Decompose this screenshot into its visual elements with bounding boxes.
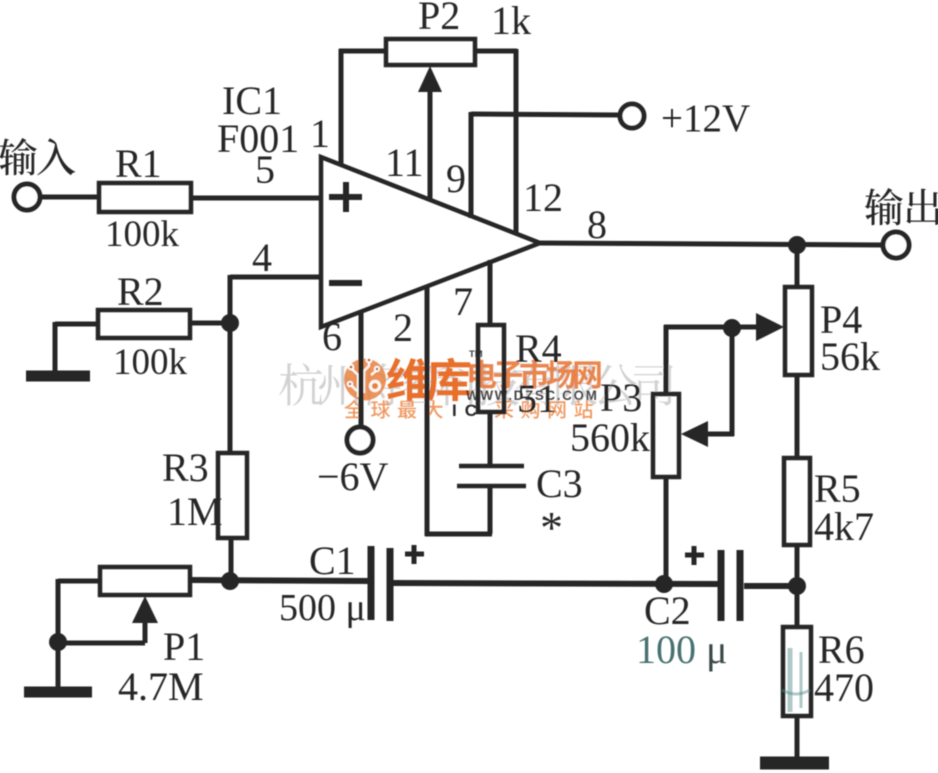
resistor R6 [783,627,811,716]
svg-text:−6V: −6V [317,454,389,499]
value 4k7 [814,504,874,549]
value 56k [820,334,880,379]
label IC1 [222,78,282,123]
label R1 [115,141,162,186]
svg-text:4k7: 4k7 [814,504,874,549]
wire P3 top to wiper node [664,325,734,396]
output terminal [883,232,909,258]
junction P3/C2 node [655,575,673,593]
pin label 1 [310,111,330,156]
wire pin1 to P2 left [339,49,388,166]
output label 输出 [865,188,938,225]
resistor R3 [218,453,247,538]
svg-text:56k: 56k [820,334,880,379]
C3 adjustable mark * [540,502,563,553]
svg-text:6: 6 [322,314,342,359]
svg-text:R1: R1 [115,141,162,186]
svg-text:R4: R4 [515,326,562,371]
junction R2/R3 node [221,314,239,332]
P4 wiper arrow [732,313,784,341]
ground (R2) [26,371,90,382]
svg-text:P1: P1 [163,624,205,669]
wire inverting input (pin 4) [230,275,321,455]
svg-text:9: 9 [446,156,466,201]
pin label 11 [385,140,424,185]
label +12V [661,97,750,140]
wire node to R6 [795,586,800,629]
capacitor C3 [457,466,526,486]
potentiometer P3 [653,394,679,477]
capacitor C1 [371,546,390,621]
value 4.7M [118,664,204,709]
wire pin 7 to R4 [488,260,493,327]
svg-text:500 μ: 500 μ [279,587,366,629]
output wire [538,243,884,245]
svg-text:100 μ: 100 μ [636,627,727,672]
value 500μ [279,587,366,629]
pin label 8 [587,202,607,247]
label R4 [515,326,562,371]
wire pin 6 to -6V [359,311,364,427]
P2 wiper arrow to pin 11 [418,66,442,201]
wire R2 left to ground [55,322,98,372]
svg-text:*: * [540,502,563,553]
svg-text:8: 8 [587,202,607,247]
svg-text:P3: P3 [600,375,642,420]
label P3 [600,375,642,420]
wire R3 to bus [229,538,234,582]
wire P2 right to pin 12 [473,49,517,235]
label C2 [644,588,691,633]
label P2 [418,0,460,38]
value 1k [491,0,531,43]
svg-text:560k: 560k [570,415,650,460]
svg-text:1: 1 [310,111,330,156]
svg-text:1k: 1k [491,0,531,43]
junction C2/R5/R6 [788,577,806,595]
label R6 [818,627,865,672]
scan artifact teal marks (R6) [782,648,810,712]
watermark company gray text [279,363,673,406]
C1 polarity + [405,545,424,564]
potentiometer P2 [386,39,475,65]
pin label 7 [453,279,473,324]
svg-text:C1: C1 [309,538,356,583]
watermark logo circle [344,357,386,401]
capacitor C2 [721,550,740,621]
svg-text:11: 11 [385,140,424,185]
wire P3 to bus [664,477,669,585]
wire C3 to pin2 loop [488,486,493,534]
op-amp IC1 triangle [321,157,540,327]
wire P1 wiper to left leg [58,641,145,646]
svg-text:2: 2 [393,305,413,350]
svg-text:4: 4 [252,235,272,280]
svg-text:P2: P2 [418,0,460,38]
label C3 [536,461,583,506]
label R2 [117,269,164,314]
label R3 [162,445,209,490]
wire wiper node down to P3 wiper [703,327,734,436]
junction P1 wiper node [49,633,67,651]
value 100μ [636,627,727,672]
value 51 [517,376,557,421]
svg-text:+12V: +12V [661,97,750,140]
-6V terminal [347,427,373,453]
op-amp - input symbol [329,280,362,286]
watermark slogan [344,400,442,419]
svg-text:1M: 1M [167,489,223,534]
value 470 [814,665,874,710]
wire R1 to op-amp pin5 [191,196,321,201]
value 100k (R2) [113,342,188,383]
svg-text:100k: 100k [113,342,188,383]
op-amp + input symbol [329,182,362,212]
label P4 [820,297,862,342]
resistor R1 [99,183,191,212]
wire output to P4 [795,245,800,289]
value 100k (R1) [105,214,180,255]
label -6V [317,454,389,499]
label P1 [163,624,205,669]
wire R4 to C3 [488,412,493,466]
value 560k [570,415,650,460]
+12V terminal [620,104,644,128]
ground (R6) [760,757,829,770]
wire +12V to pin 9 [471,112,620,218]
wire R6 to ground [795,716,800,760]
watermark weiku brand text [387,358,470,402]
label C1 [309,538,356,583]
pin label 12 [523,175,563,220]
wire R2 right to node [188,321,232,326]
wire P1 left to ground [58,579,100,692]
resistor R5 [784,458,810,545]
svg-text:R3: R3 [162,445,209,490]
value 1M [167,489,223,534]
P3 wiper arrow [681,421,708,447]
ground (P1) [24,687,92,698]
potentiometer P1 [100,567,190,595]
svg-text:R2: R2 [117,269,164,314]
input terminal [14,184,40,210]
pin label 6 [322,314,342,359]
junction output/P4 [788,236,806,254]
pin label 5 [255,147,275,192]
svg-text:7: 7 [453,279,473,324]
bus wire C1 to C2 [393,583,718,584]
wire C2 to R5/R6 node [744,583,800,589]
wire R5 to node [795,545,800,588]
junction R3/P1/C1 node [221,572,239,590]
C2 polarity + [685,546,704,565]
svg-text:C3: C3 [536,461,583,506]
svg-text:100k: 100k [105,214,180,255]
resistor R2 [98,310,190,338]
resistor R4 [478,325,504,412]
junction wiper node [723,319,741,337]
input label 输入 [0,138,75,175]
svg-text:470: 470 [814,665,874,710]
bus wire P1 to C1 [190,580,369,581]
svg-text:12: 12 [523,175,563,220]
watermark dianzishichangwang [469,359,600,388]
wire input to R1 [40,195,100,200]
P1 wiper arrow [132,596,158,643]
label R5 [814,466,861,511]
pin label 2 [393,305,413,350]
wire pin 2 down and right [425,285,492,536]
svg-text:F001: F001 [217,116,299,161]
svg-text:4.7M: 4.7M [118,664,204,709]
pin label 9 [446,156,466,201]
svg-text:51: 51 [517,376,557,421]
label F001 [217,116,299,161]
pin label 4 [252,235,272,280]
wire P4 to R5 [795,375,800,460]
potentiometer P4 [785,287,812,375]
